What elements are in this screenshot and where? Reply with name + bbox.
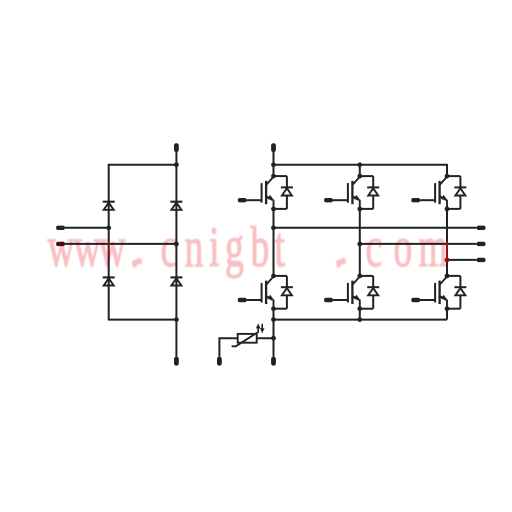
node top rail leg2 xyxy=(357,162,362,167)
wire output U xyxy=(274,227,477,229)
diode D4 xyxy=(170,276,182,278)
freewheel diode D5 xyxy=(274,176,293,209)
freewheel diode D10 xyxy=(447,276,466,309)
wire leg3 mid lower xyxy=(446,260,448,276)
svg-text:www.cnigbt.com: www.cnigbt.com xyxy=(48,216,448,279)
gate terminal Q5 xyxy=(324,298,333,302)
freewheel diode D6 xyxy=(360,176,379,209)
diode D1 xyxy=(103,201,115,203)
gate lead Q5 xyxy=(333,299,348,301)
node out3 xyxy=(445,258,450,263)
gate terminal Q3 xyxy=(411,198,420,202)
wire bridge top rail xyxy=(109,164,177,166)
terminal DC+ bridge top xyxy=(174,143,179,152)
collector node Q4 xyxy=(271,274,276,279)
watermark text xyxy=(136,258,347,265)
node bottom rail leg2 xyxy=(357,317,362,322)
wire leg3 collector drop xyxy=(446,164,448,176)
diode D2 xyxy=(170,201,182,203)
terminal P inverter top xyxy=(271,143,276,152)
node bridge left mid xyxy=(106,225,111,230)
thermistor RT1 xyxy=(232,333,258,347)
freewheel diode D8 xyxy=(274,276,293,309)
transistor Q1 xyxy=(262,177,275,209)
wire leg1 emitter to bottom rail xyxy=(273,309,275,320)
wire bridge right branch upper xyxy=(175,165,177,244)
gate terminal Q1 xyxy=(238,198,247,202)
wire bridge bottom stub xyxy=(175,320,177,357)
wire leg2 emitter to out2 xyxy=(359,209,361,244)
gate terminal Q4 xyxy=(238,298,247,302)
terminal W xyxy=(477,258,486,262)
wire red overlap leg3 xyxy=(446,242,448,260)
wire leg1 emitter to out1 xyxy=(273,209,275,228)
terminal AC input 2 xyxy=(56,242,65,246)
wire leg1 to ntc node xyxy=(273,320,275,339)
wire inverter bottom stub xyxy=(273,338,275,357)
wire leg2 collector drop xyxy=(359,164,361,176)
wire bridge left branch upper xyxy=(108,164,110,228)
collector node Q2 xyxy=(357,174,362,179)
gate terminal Q2 xyxy=(324,198,333,202)
thermistor temperature arrows xyxy=(256,323,265,333)
wire bridge right branch lower xyxy=(175,244,177,320)
wire leg3 emitter to out3 xyxy=(446,209,448,260)
collector node Q6 xyxy=(445,274,450,279)
wire bridge bottom rail xyxy=(109,319,177,321)
wire ntc right xyxy=(257,337,274,339)
wire bottom rail xyxy=(274,319,448,321)
transistor Q2 xyxy=(348,177,361,209)
transistor Q3 xyxy=(435,177,448,209)
node out1 xyxy=(271,225,276,230)
wire leg3 emitter to bottom rail xyxy=(446,309,448,320)
diode D3 xyxy=(103,276,115,278)
gate lead Q3 xyxy=(420,199,435,201)
terminal DC- bridge bottom xyxy=(174,357,179,366)
freewheel diode D9 xyxy=(360,276,379,309)
wire top rail xyxy=(274,164,448,166)
wire AC input 2 xyxy=(65,243,176,245)
wire red overlap bridge left branch xyxy=(108,241,110,257)
terminal AC input 1 xyxy=(56,226,65,230)
gate lead Q1 xyxy=(247,199,262,201)
wire bridge top stub xyxy=(175,151,177,165)
gate terminal Q6 xyxy=(411,298,420,302)
node bridge top xyxy=(174,162,179,167)
emitter node Q4 xyxy=(271,306,276,311)
transistor Q4 xyxy=(262,277,275,309)
terminal N inverter bottom xyxy=(271,357,276,366)
node bridge bottom xyxy=(174,317,179,322)
wire AC input 1 xyxy=(65,227,109,229)
wire leg2 mid lower xyxy=(359,244,361,276)
emitter node Q1 xyxy=(271,207,276,212)
wire ntc left xyxy=(219,338,237,357)
node out2 xyxy=(357,242,362,247)
wire leg1 mid lower xyxy=(273,228,275,276)
gate lead Q4 xyxy=(247,299,262,301)
emitter node Q2 xyxy=(357,207,362,212)
gate lead Q6 xyxy=(420,299,435,301)
collector node Q1 xyxy=(271,174,276,179)
transistor Q5 xyxy=(348,277,361,309)
collector node Q5 xyxy=(357,274,362,279)
gate lead Q2 xyxy=(333,199,348,201)
node bottom rail leg1 xyxy=(271,317,276,322)
terminal ntc xyxy=(217,357,222,366)
wire leg2 emitter to bottom rail xyxy=(359,309,361,320)
node ntc junction xyxy=(271,336,276,341)
wire inverter top stub xyxy=(273,151,275,165)
wire output W xyxy=(447,259,477,261)
emitter node Q3 xyxy=(445,207,450,212)
node bridge right mid xyxy=(174,242,179,247)
wire leg1 collector drop xyxy=(273,164,275,176)
freewheel diode D7 xyxy=(447,176,466,209)
wire output V xyxy=(360,243,477,245)
terminal U xyxy=(477,226,486,230)
wire bridge left branch lower xyxy=(108,228,110,321)
emitter node Q6 xyxy=(445,306,450,311)
collector node Q3 xyxy=(445,174,450,179)
transistor Q6 xyxy=(435,277,448,309)
terminal V xyxy=(477,242,486,246)
emitter node Q5 xyxy=(357,306,362,311)
node top rail leg1 xyxy=(271,162,276,167)
